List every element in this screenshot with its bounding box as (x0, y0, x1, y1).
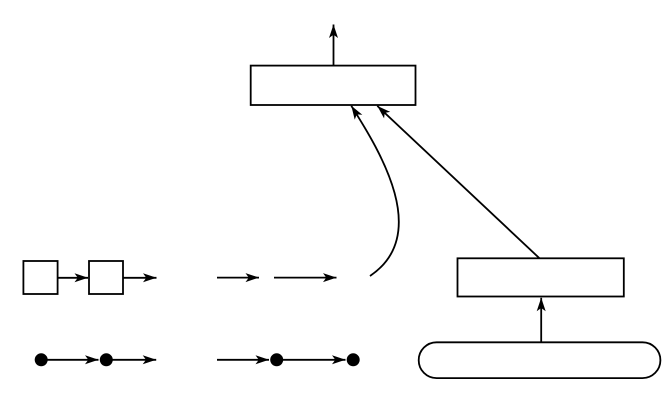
vertical arrow from stadium to right box (540, 298, 542, 343)
dot 2 (100, 353, 113, 366)
arrow out of square 2 (123, 277, 157, 279)
diagonal arrow from right box to top box (377, 106, 539, 258)
dot 3 (270, 353, 283, 366)
square 2 (89, 261, 123, 294)
arrow out of dot 2 (106, 359, 156, 361)
dot 1 (35, 353, 48, 366)
middle arrow 2 (274, 277, 337, 279)
stadium (419, 342, 661, 378)
square 1 (23, 261, 57, 294)
top box (251, 66, 416, 105)
arrow dot 1 to dot 2 (41, 359, 98, 361)
right box (458, 258, 624, 296)
arrow square 1 to square 2 (58, 277, 88, 279)
output arrow from top box (333, 25, 335, 66)
dot 4 (347, 353, 360, 366)
arrow into dot 3 (217, 359, 269, 361)
curved arrow into top box (351, 106, 399, 276)
middle arrow 1 (217, 277, 259, 279)
arrow dot 3 to dot 4 (277, 359, 346, 361)
